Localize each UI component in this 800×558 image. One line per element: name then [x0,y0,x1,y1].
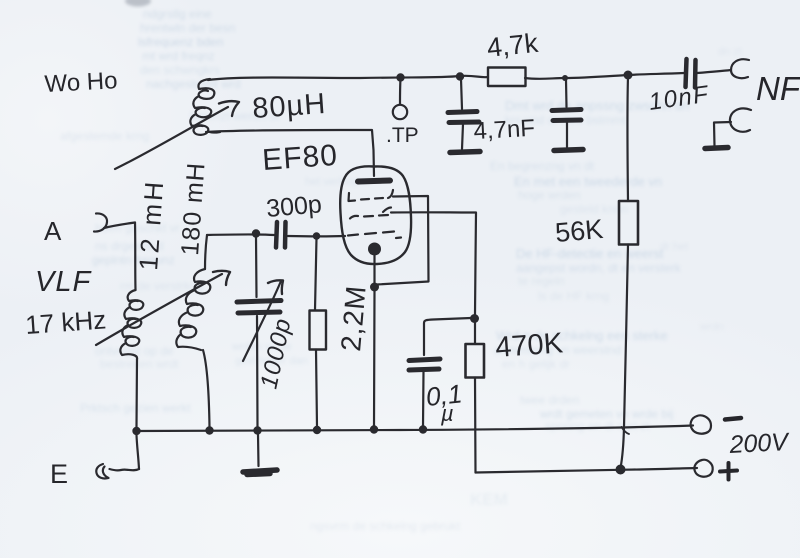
capacitor C3 4,7nF-b stem [565,80,568,107]
wire L1 bottom to anode [206,130,374,176]
svg-text:4,7k: 4,7k [485,28,539,63]
wire C lower to ground [714,122,731,146]
wire [525,75,628,79]
terminal plus circle [694,460,712,477]
svg-text:EF80: EF80 [261,139,339,177]
wire 56k bottom lead crossing minus rail [621,245,629,469]
svg-text:twee drden: twee drden [520,393,579,407]
svg-text:dr het: dr het [660,241,688,253]
capacitor C6 arrow (variable) [243,281,281,361]
wire g1 to left (to 300p) [288,235,345,238]
resistor R2 56k [619,201,638,245]
ground at C lower [705,148,728,149]
svg-text:En begrenzng vn dt: En begrenzng vn dt [490,159,595,173]
svg-text:56K: 56K [554,214,604,248]
grid g3 suppressor dashes [349,190,394,201]
node junction 1000p bottom [253,426,261,434]
svg-text:µ: µ [440,401,454,426]
grid g1 control dashes [348,232,401,239]
inductor L2 12mH loops [120,290,143,359]
capacitor C5 300p plates [276,222,277,248]
svg-text:dn zt: dn zt [718,46,742,58]
svg-text:200V: 200V [728,428,791,459]
resistor R3 2,2M leads [315,238,317,310]
svg-text:NF: NF [756,70,800,107]
svg-text:470K: 470K [494,327,564,364]
wire 1000p below rail to ground [257,434,260,466]
svg-text:ndgrstlg eine: ndgrstlg eine [143,7,212,21]
svg-text:bestreken wrdt: bestreken wrdt [100,357,179,371]
capacitor C6 stem bottom to rail [256,316,259,427]
wire [628,73,684,75]
wire g2 screen to right [391,212,476,314]
inductor L3 180mH top corner [205,235,207,269]
svg-text:lsfrequenz bden: lsfrequenz bden [138,35,223,49]
wire minus rail [137,426,694,432]
terminal E hook [96,464,108,478]
node junction 0,1µ bottom [419,425,427,433]
svg-text:afgestemde krng: afgestemde krng [60,129,149,143]
wire plus rail [476,468,698,473]
svg-text:hrentwln der besn: hrentwln der besn [140,21,235,35]
svg-text:80µH: 80µH [251,88,327,125]
wire cathode to minus rail [373,291,376,427]
terminal minus circle [691,415,711,433]
ground at C3 [554,150,583,151]
svg-text:De HF-detectie en weerst: De HF-detectie en weerst [516,246,664,261]
node junction 2,2M bottom [313,426,321,434]
resistor R3 2,2M [310,311,327,350]
node junction at 4.7nF #1 [456,72,464,80]
svg-text:Wo Ho: Wo Ho [44,67,118,98]
capacitor C6 1000p stem top [255,236,258,297]
svg-text:den schwngkrs: den schwngkrs [140,63,220,77]
inductor L1 80µH [190,79,220,135]
capacitor C7 0,1µ plates [409,359,440,361]
capacitor C4 10nF plates [686,59,687,87]
svg-text:spnnng en dl met zt: spnnng en dl met zt [545,419,650,433]
svg-text:KEM: KEM [470,490,508,509]
terminal C lower (output return) [730,108,751,131]
anode plate bar [358,181,390,182]
node screen node junction [470,314,479,323]
capacitor C2 4,7nF top stem [461,79,462,109]
wire 56k top lead [626,77,629,201]
svg-text:ngsvrm de schkelng gebrukt: ngsvrm de schkelng gebrukt [310,519,461,533]
node junction 2,2M tap [313,232,321,240]
resistor R4 470K top lead [474,322,476,344]
arrow L1 adjust [115,107,228,169]
svg-text:te regeln: te regeln [518,274,565,288]
svg-text:VLF: VLF [35,266,92,298]
wire hop tick at crossing [622,427,630,434]
label plus sign [720,463,737,480]
tube U1 EF80 envelope [340,166,411,264]
arrow coupling adjust [96,274,222,345]
test point TP [393,105,407,119]
svg-text:4,7nF: 4,7nF [473,115,536,145]
capacitor C7 bottom stem [422,372,425,427]
capacitor C3 bottom stem [566,122,568,147]
wire E lead [110,469,140,470]
svg-text:ls de HF krng: ls de HF krng [538,289,609,303]
ground at C2 [450,152,480,153]
capacitor C6 1000p plates [237,301,281,303]
wire 10nF to C terminal [697,70,731,73]
svg-text:aangepst wordn, dt en versterk: aangepst wordn, dt en versterk [516,261,682,275]
grid g2 screen dashes [350,208,391,219]
svg-text:300p: 300p [265,190,323,223]
node junction cathode bottom [370,425,378,433]
wire 470K bottom crossing minus rail to plus rail [474,378,477,473]
node junction L2 bottom [132,427,140,435]
node junction 1000p tap [252,229,260,237]
inductor L3 bottom lead [203,350,210,427]
label minus sign [725,418,741,420]
wire suppressor-to-cathode loop rectangle [377,196,429,285]
svg-text:hoge wrden: hoge wrden [518,188,581,202]
wire A to L2 top [104,223,135,229]
inductor L2 bottom lead [135,359,138,427]
wire screen node to 0,1µ [424,318,471,355]
svg-text:wrdn: wrdn [699,321,724,333]
ground below 1000p [243,470,277,475]
resistor R4 470K [466,344,485,378]
terminal A hook [94,213,107,231]
svg-text:12 mH: 12 mH [133,178,169,271]
inductor L2 12mH top lead [134,223,137,291]
svg-text:.TP: .TP [386,124,419,147]
svg-text:E: E [50,459,68,489]
cathode dot [368,243,381,256]
svg-text:En met een tweederde vn: En met een tweederde vn [514,174,662,189]
terminal C upper (output) [731,59,749,78]
node junction at 56k top [624,71,633,80]
top edge smudge [125,0,151,7]
svg-text:2,2M: 2,2M [335,284,372,353]
capacitor C2 4,7nF plates [448,112,477,113]
svg-text:mt wrd freqnz: mt wrd freqnz [142,49,215,63]
resistor R1 4,7k [488,68,526,87]
node junction TP tap [396,73,404,81]
inductor L3 180mH loops [176,269,210,350]
node small at second cap [562,75,568,81]
svg-text:A: A [44,216,62,246]
capacitor C3 plates [552,110,581,111]
wire TP drop [399,79,402,104]
node junction L3 bottom [205,426,213,434]
capacitor C2 bottom stem [462,124,463,149]
node cathode junction [370,283,379,292]
svg-text:17 kHz: 17 kHz [24,304,107,340]
wire top rail from L1 to right [208,76,488,80]
wire cathode down [373,255,375,283]
wire left line down to E [137,435,140,469]
wire 300p left to tank [207,233,274,236]
node junction 56k on plus rail [616,465,626,475]
